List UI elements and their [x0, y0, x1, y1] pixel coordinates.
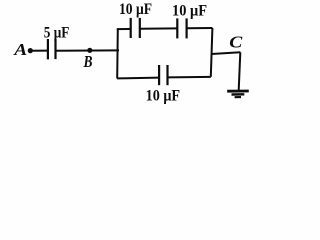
svg-text:5 μF: 5 μF: [44, 25, 70, 42]
capacitor C3 left plate: [176, 18, 178, 38]
left vertical rail: [116, 29, 119, 78]
ground bar 3: [235, 96, 241, 98]
right vertical rail: [211, 28, 213, 77]
ground bar 1: [227, 90, 249, 93]
svg-text:10 μF: 10 μF: [172, 3, 207, 20]
ground bar 2: [232, 93, 245, 96]
capacitor C4 left plate: [158, 65, 160, 85]
wire C1 to junction via node B: [56, 49, 120, 51]
node A: [28, 48, 33, 53]
wire C2 to C3: [140, 27, 178, 29]
capacitor C3 right plate: [186, 18, 188, 38]
svg-text:C: C: [229, 32, 243, 51]
ground stem wire: [239, 52, 241, 90]
wire bottom-left corner to C4: [117, 77, 159, 80]
wire A to C1: [30, 50, 48, 52]
node B: [87, 48, 92, 53]
capacitor C2 left plate: [130, 18, 132, 38]
capacitor C1 left plate: [47, 39, 49, 59]
wire C3 to top-right corner: [187, 27, 213, 29]
svg-text:10 μF: 10 μF: [146, 87, 181, 104]
wire node C branch: [212, 52, 241, 54]
svg-text:A: A: [13, 40, 27, 59]
wire top-left corner to C2: [117, 28, 131, 30]
svg-text:B: B: [83, 52, 93, 71]
wire C4 to bottom-right corner: [168, 76, 211, 79]
capacitor C1 right plate: [54, 39, 56, 59]
capacitor C2 right plate: [139, 18, 141, 38]
capacitor C4 right plate: [166, 65, 168, 85]
svg-text:10 μF: 10 μF: [119, 1, 152, 18]
